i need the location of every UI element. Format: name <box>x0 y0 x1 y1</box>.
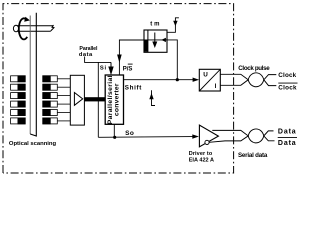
svg-text:Parallel: Parallel <box>79 46 98 52</box>
svg-text:Shift: Shift <box>125 85 142 92</box>
svg-text:Data: Data <box>278 128 296 135</box>
svg-text:Clock: Clock <box>278 72 296 79</box>
svg-text:Driver to: Driver to <box>189 151 213 157</box>
svg-text:So: So <box>125 130 134 137</box>
svg-text:I: I <box>215 83 217 90</box>
svg-text:Optical scanning: Optical scanning <box>9 141 57 147</box>
svg-text:Clock pulse: Clock pulse <box>238 65 270 72</box>
svg-text:converter: converter <box>114 83 121 116</box>
svg-text:data: data <box>79 52 93 58</box>
svg-text:Data: Data <box>278 140 296 147</box>
svg-text:Si: Si <box>100 65 107 71</box>
svg-text:U: U <box>203 71 208 78</box>
svg-text:P/S: P/S <box>123 66 133 72</box>
svg-text:t: t <box>150 22 152 28</box>
svg-text:Serial data: Serial data <box>238 152 268 159</box>
svg-text:Clock: Clock <box>278 84 297 91</box>
svg-text:EIA 422 A: EIA 422 A <box>189 157 214 163</box>
svg-text:m: m <box>154 22 159 28</box>
